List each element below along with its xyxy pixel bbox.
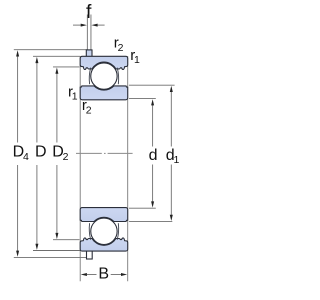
cage arc left (bottom half) — [89, 223, 90, 240]
cage arc right (bottom half) — [117, 223, 118, 240]
cage arc left (top half) — [89, 68, 90, 85]
snap ring lug bottom (white) — [87, 251, 93, 259]
inner ring bottom half — [80, 208, 128, 222]
dimension f: extension lines — [86, 15, 88, 50]
svg-text:d: d — [149, 147, 158, 164]
snap ring lug top — [86, 50, 92, 58]
svg-text:f: f — [86, 1, 92, 23]
dimension f: left arrow — [73, 24, 87, 27]
dimension d vertical line with arrows — [151, 99, 154, 207]
wire: d top extension line — [129, 98, 156, 100]
svg-text:B: B — [98, 266, 109, 283]
wire: right face extension line (B extension, right) — [127, 56, 129, 281]
wire: d bottom extension line — [129, 207, 156, 209]
wire: left face extension line (B extension, left) — [79, 56, 81, 281]
dimension f: right arrow — [91, 24, 104, 27]
wire: d1 bottom extension line — [129, 221, 172, 223]
wire: D4 top extension line — [14, 49, 87, 51]
outer ring top half — [80, 56, 128, 69]
wire: D4 bottom extension line — [14, 256, 87, 258]
wire: d1 top extension line — [129, 84, 175, 86]
wire: D top extension line — [33, 55, 80, 57]
dimension D2 vertical line with arrows — [55, 68, 58, 240]
svg-text:D: D — [35, 144, 47, 161]
ball (bottom half) — [91, 218, 117, 244]
ball (top half) — [91, 63, 117, 89]
inner ring top half — [80, 86, 128, 100]
outer ring bottom half — [80, 238, 128, 251]
wire: D bottom extension line — [33, 250, 80, 252]
dimension d1 vertical line with arrows — [170, 86, 173, 221]
wire: D2 bottom extension line — [53, 239, 80, 241]
dimension D vertical line with arrows — [35, 57, 38, 250]
wire: D2 top extension line — [53, 66, 80, 68]
cage arc right (top half) — [117, 68, 118, 85]
dimension D4 vertical line with arrows — [16, 50, 19, 256]
dimension B line with outward arrows — [81, 273, 128, 276]
node centerline (dash-dot axis) — [76, 152, 133, 154]
